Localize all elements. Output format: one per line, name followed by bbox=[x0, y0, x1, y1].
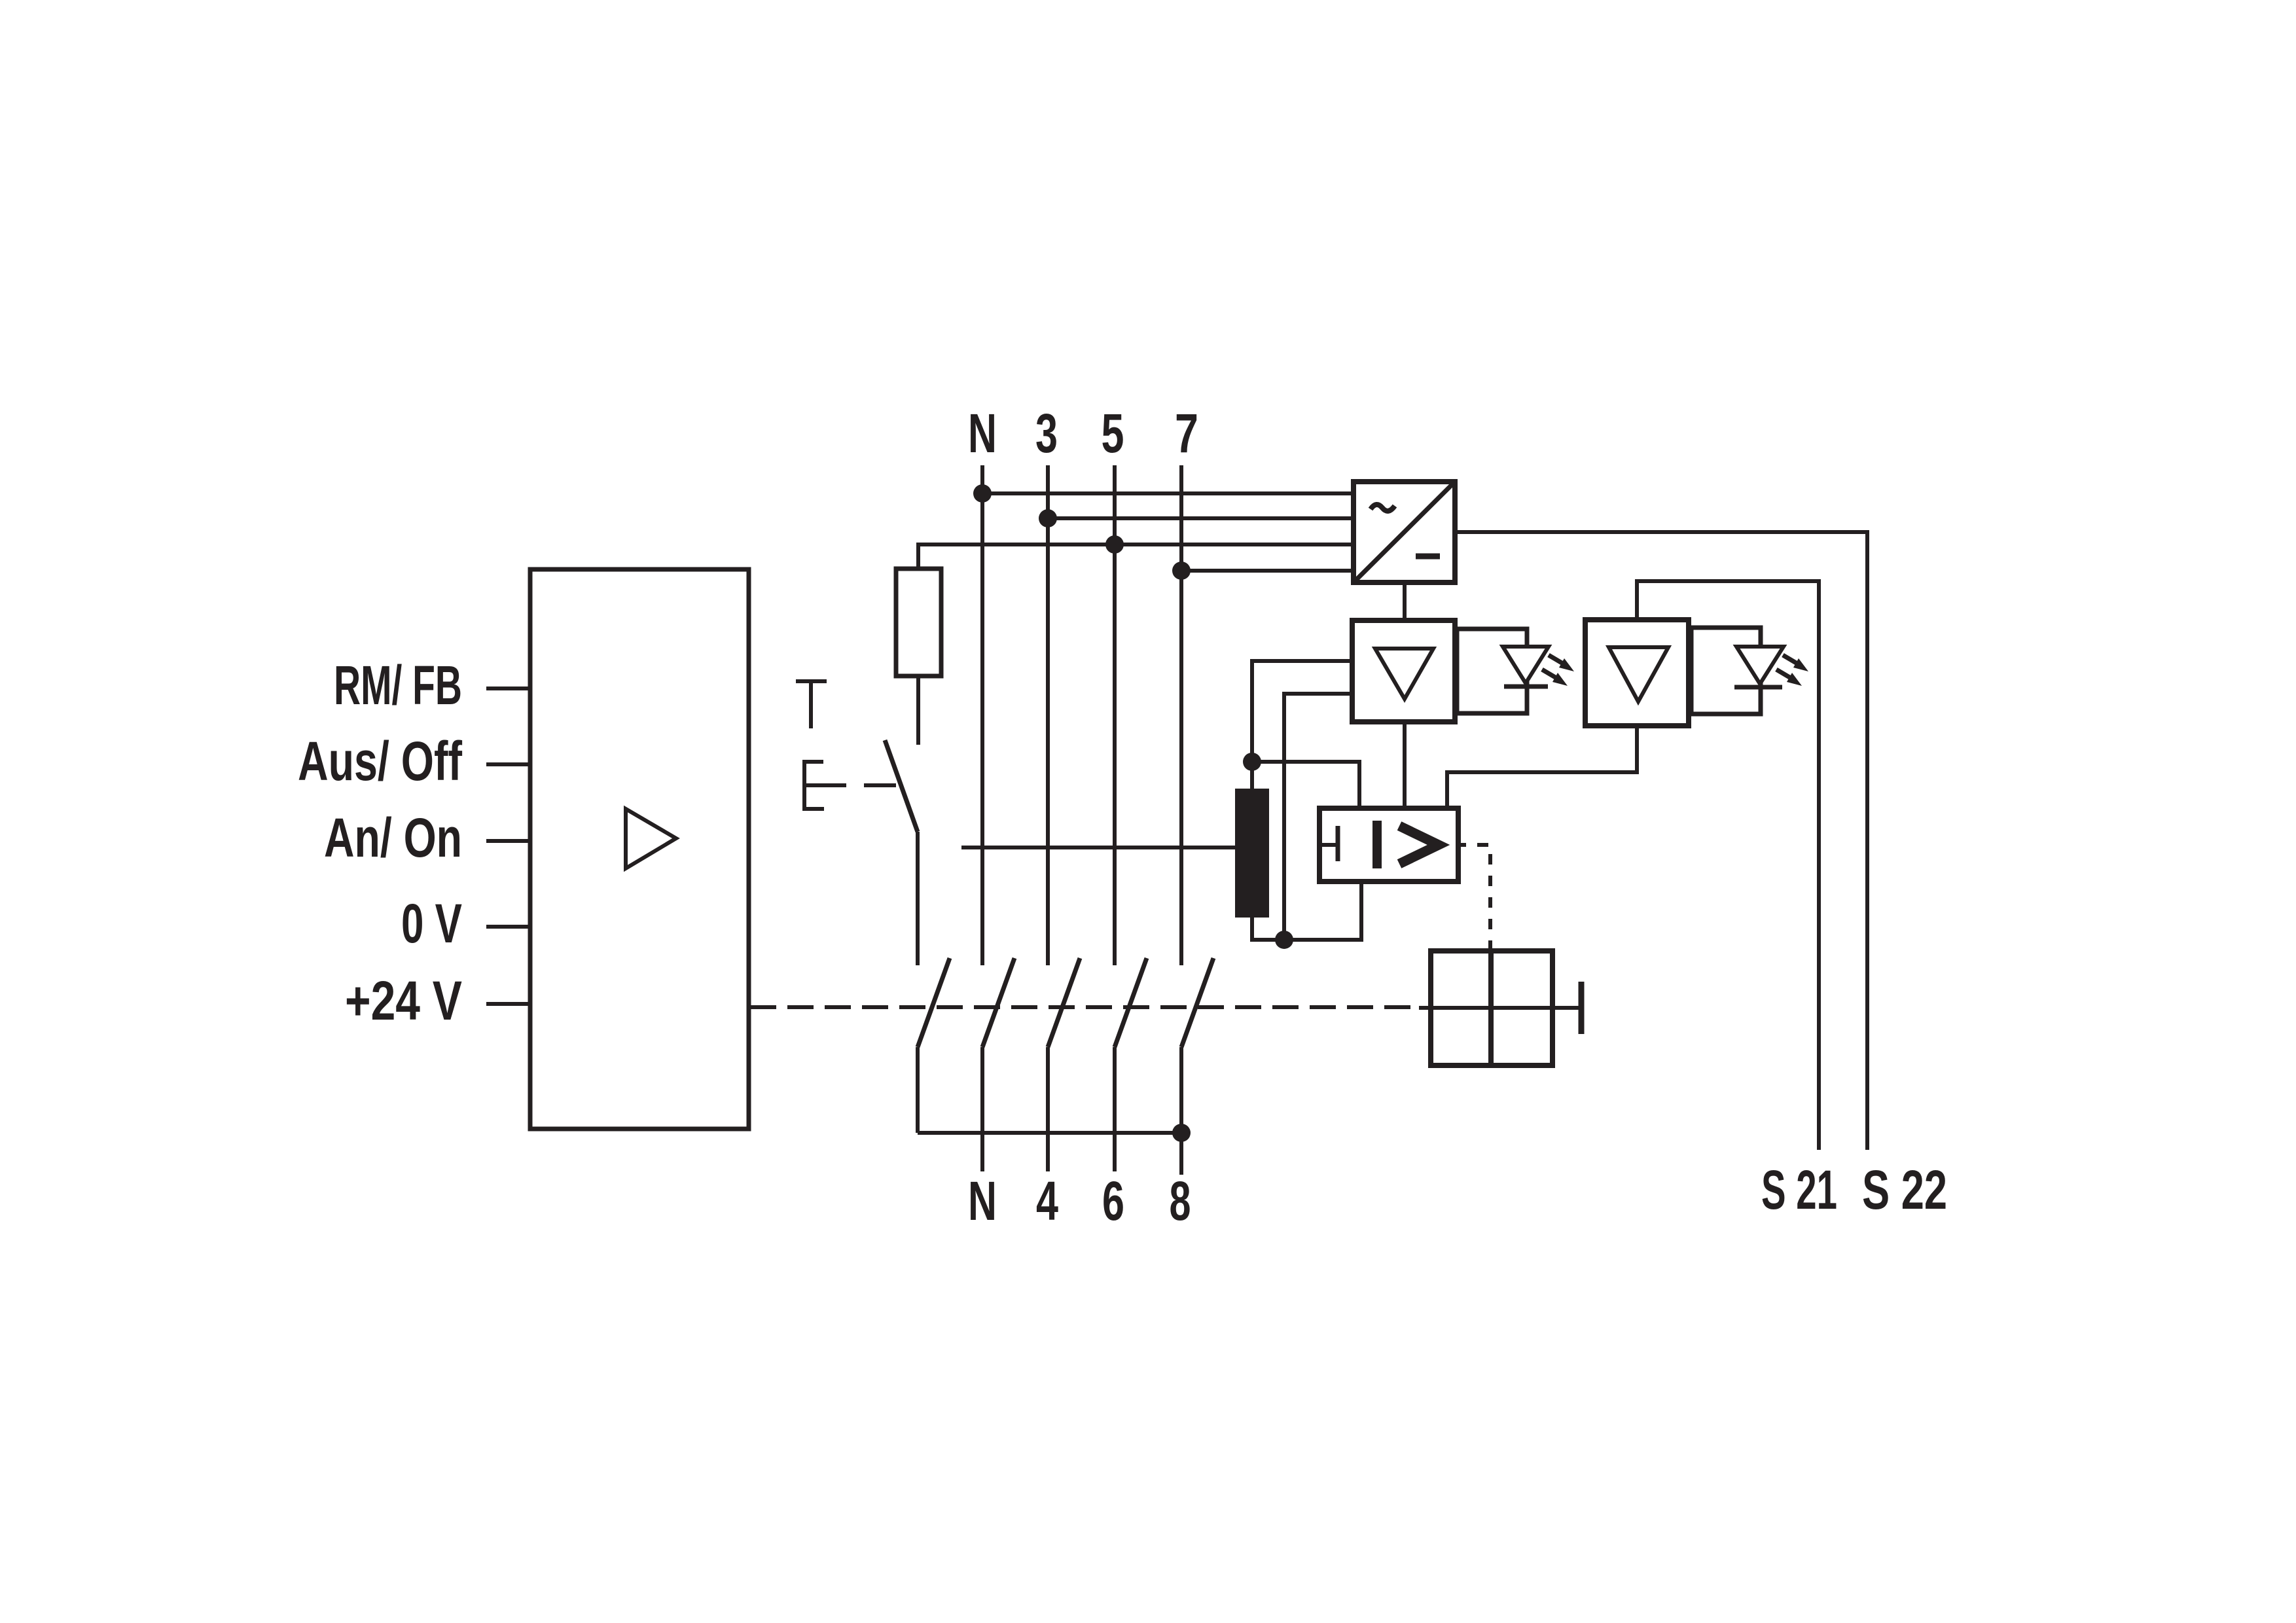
svg-text:N: N bbox=[968, 402, 997, 464]
switch S1 blade bbox=[885, 740, 918, 832]
wire switch to contact pole 1 bbox=[916, 832, 920, 965]
push button symbol bbox=[804, 760, 896, 811]
pin RM/FB stub bbox=[486, 687, 530, 690]
overcurrent detector I> box bbox=[1319, 808, 1458, 882]
contact pole 4 blade bbox=[1115, 958, 1147, 1047]
junction bottom bus bbox=[1172, 1124, 1191, 1142]
CT primary link line bbox=[961, 846, 1235, 849]
test actuator T symbol bbox=[796, 681, 827, 728]
wire A1 input 2 bbox=[1284, 694, 1354, 940]
wire 3 vertical bbox=[1046, 465, 1050, 965]
wire bus N to power supply bbox=[982, 491, 1354, 495]
wire A2 top to S21 bbox=[1637, 581, 1819, 1150]
trip coil K1 bbox=[1235, 789, 1269, 918]
indicator LED box 1 bbox=[1457, 629, 1527, 713]
fuse F1 bbox=[896, 569, 941, 676]
LED driver A1 triangle bbox=[1375, 649, 1433, 699]
LED driver A2 triangle bbox=[1609, 647, 1668, 702]
power supply DC minus bbox=[1416, 554, 1440, 560]
wire PSU output to S22 bbox=[1455, 532, 1867, 1150]
junction coil bottom bbox=[1275, 931, 1293, 949]
power supply U1 box bbox=[1354, 482, 1455, 582]
wire 5 vertical bbox=[1113, 465, 1117, 965]
svg-text:5: 5 bbox=[1102, 402, 1124, 464]
wire terminal 4 bottom bbox=[1046, 1047, 1050, 1171]
wire terminal 8 bottom bbox=[1179, 1047, 1183, 1175]
junction on N bus bbox=[973, 484, 992, 503]
LED driver A1 box bbox=[1352, 620, 1455, 722]
wire fuse bottom stub bbox=[916, 676, 920, 745]
pin Aus/Off stub bbox=[486, 762, 530, 766]
svg-text:8: 8 bbox=[1170, 1170, 1191, 1232]
detector chevron bbox=[1399, 826, 1439, 864]
svg-text:4: 4 bbox=[1036, 1170, 1058, 1232]
LED D2 symbol bbox=[1734, 647, 1808, 687]
contact pole 2 blade bbox=[982, 958, 1014, 1047]
svg-text:Aus/ Off: Aus/ Off bbox=[298, 730, 463, 792]
junction on 7 bus bbox=[1172, 562, 1191, 580]
power supply AC tilde bbox=[1371, 505, 1395, 511]
pin +24V stub bbox=[486, 1002, 530, 1006]
svg-text:An/ On: An/ On bbox=[324, 807, 462, 868]
test box crossbar bbox=[1419, 1006, 1579, 1010]
LED driver A2 box bbox=[1585, 620, 1689, 726]
junction coil top bbox=[1243, 753, 1261, 771]
pin An/On stub bbox=[486, 839, 530, 843]
wire bus 7 to power supply bbox=[1181, 569, 1354, 573]
wire A1 input from coil node bbox=[1252, 661, 1354, 789]
wire bottom bus bbox=[918, 1131, 1181, 1135]
svg-text:S 22: S 22 bbox=[1862, 1159, 1947, 1221]
wire bus 5/fuse to power supply bbox=[918, 544, 1354, 569]
wire coil node to I> top bbox=[1252, 762, 1359, 808]
junction on 3 bus bbox=[1039, 509, 1057, 527]
wire pole 1 bottom bbox=[916, 1047, 920, 1133]
wire A2 bottom to I> top bbox=[1447, 726, 1637, 808]
test box terminal bar bbox=[1579, 982, 1585, 1034]
contact pole 5 blade bbox=[1181, 958, 1213, 1047]
dashed +24V control linkage bbox=[750, 1005, 1419, 1009]
indicator LED box 2 bbox=[1691, 628, 1761, 714]
test box vertical divider bbox=[1488, 951, 1494, 1065]
svg-text:3: 3 bbox=[1035, 402, 1058, 464]
power supply diagonal bbox=[1354, 482, 1455, 582]
junction on 5 bus bbox=[1105, 535, 1124, 554]
detector input tick bbox=[1319, 826, 1338, 861]
svg-text:N: N bbox=[968, 1170, 997, 1232]
wire terminal 6 bottom bbox=[1113, 1047, 1117, 1171]
test box bbox=[1431, 951, 1552, 1065]
svg-text:7: 7 bbox=[1175, 402, 1198, 464]
wire terminal N bottom bbox=[980, 1047, 984, 1171]
svg-text:RM/ FB: RM/ FB bbox=[334, 654, 462, 716]
detector I bar bbox=[1372, 821, 1382, 868]
svg-text:S 21: S 21 bbox=[1761, 1159, 1837, 1221]
wire bus 3 to power supply bbox=[1048, 516, 1354, 520]
contact pole 3 blade bbox=[1048, 958, 1080, 1047]
wire coil bottom to I> bottom bbox=[1252, 882, 1361, 940]
LED D1 symbol bbox=[1503, 647, 1574, 687]
control unit amplifier triangle bbox=[626, 809, 676, 868]
wire N vertical bbox=[980, 465, 984, 965]
pin 0V stub bbox=[486, 925, 530, 929]
svg-text:+24 V: +24 V bbox=[345, 970, 462, 1031]
wire A1 bottom to I> top bbox=[1403, 722, 1407, 808]
svg-text:6: 6 bbox=[1102, 1170, 1124, 1232]
wire 7 vertical bbox=[1179, 465, 1183, 965]
contact pole 1 blade bbox=[918, 958, 950, 1047]
svg-text:0 V: 0 V bbox=[401, 893, 462, 954]
wire PSU to LED driver A1 bbox=[1403, 582, 1407, 620]
control unit box bbox=[530, 569, 749, 1129]
dashed trip linkage to test box bbox=[1458, 845, 1490, 951]
